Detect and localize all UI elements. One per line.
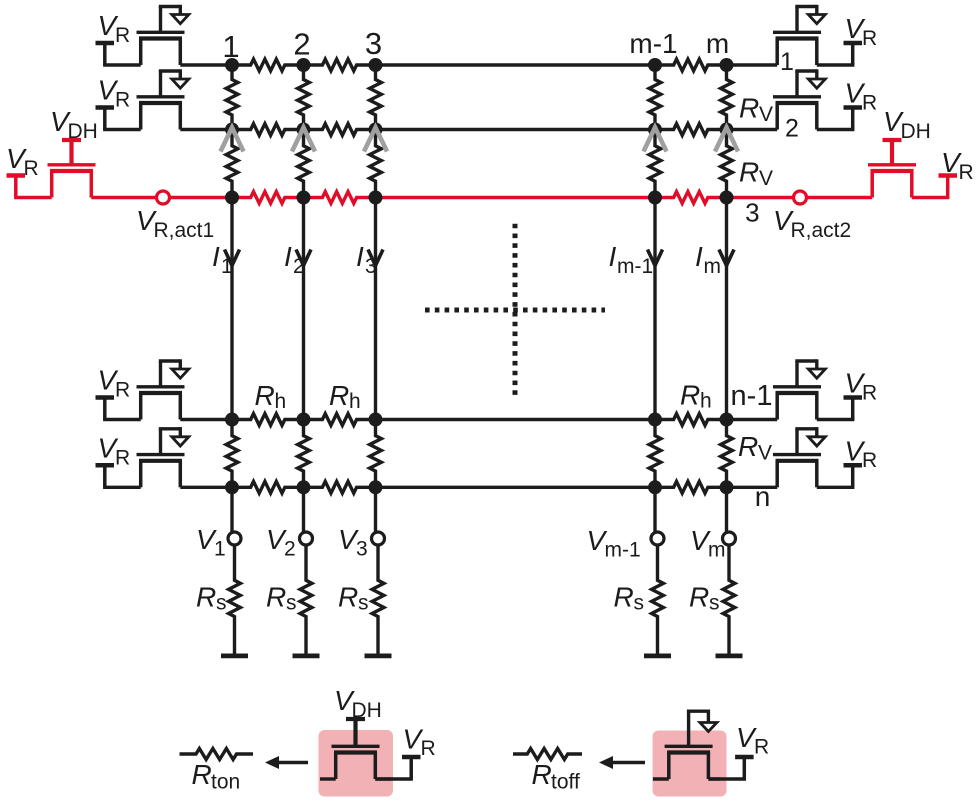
transistor row n right (off-type select) xyxy=(773,427,862,487)
svg-text:R: R xyxy=(614,582,634,613)
resistor RV col 1 rows n-1..n xyxy=(226,420,238,488)
svg-text:R: R xyxy=(115,446,130,469)
wire col m-1 to V node xyxy=(653,487,656,532)
legend arrow left xyxy=(265,756,308,769)
ground col 3 xyxy=(365,654,392,659)
wire row n-1 right segment xyxy=(727,418,778,421)
svg-text:R: R xyxy=(192,759,212,790)
resistor row n-1 between col2-col3 xyxy=(304,414,376,426)
label Rtoff xyxy=(532,759,580,794)
svg-text:h: h xyxy=(275,390,287,413)
svg-text:2: 2 xyxy=(284,538,296,561)
dotted continuation line horizontal xyxy=(425,308,605,313)
svg-text:n: n xyxy=(755,481,771,512)
label Rs #4 xyxy=(614,582,645,615)
resistor row 2 between col m-1 and m xyxy=(655,124,727,136)
ground col m-1 xyxy=(644,654,671,659)
current arrow col m xyxy=(719,250,734,266)
legend left transistor source/drain wires xyxy=(320,777,391,780)
resistor RV col m rows n-1..n xyxy=(721,420,733,488)
label VR legend right xyxy=(736,722,769,759)
resistor row n-1 between col m-1 and m xyxy=(655,414,727,426)
wire col 1 vertical xyxy=(230,198,233,420)
junction col 3 row n xyxy=(369,480,383,494)
junction col 2 row n xyxy=(297,480,311,494)
svg-text:R: R xyxy=(862,27,877,50)
wire active row 3 to col1 xyxy=(170,196,233,199)
resistor row n-1 between col1-col2 xyxy=(232,414,304,426)
resistor Rs col 1 xyxy=(229,545,241,654)
transistor row-2 left (off-type select) xyxy=(96,69,189,129)
node V terminal col 3 (open circle) xyxy=(372,532,385,545)
resistor RV col 3 rows2-3 xyxy=(370,130,382,198)
svg-text:1: 1 xyxy=(214,538,226,561)
label VDH left xyxy=(50,106,98,143)
label column 1 xyxy=(222,29,239,64)
svg-text:h: h xyxy=(349,390,361,413)
wire col m vertical xyxy=(725,198,728,420)
junction col 1 row1 xyxy=(225,58,239,72)
wire row n middle segment xyxy=(376,486,656,489)
label VR transistor row n-1 left xyxy=(98,365,131,402)
wire row n right segment xyxy=(727,486,778,489)
svg-text:R: R xyxy=(421,737,436,760)
junction col 1 row2 xyxy=(225,123,239,137)
wire row 2 middle segment xyxy=(376,128,656,131)
svg-text:m-1: m-1 xyxy=(605,539,641,562)
junction col m row1 xyxy=(720,58,734,72)
transistor active row-3 right (on, VDH gate, red) xyxy=(868,140,957,198)
legend highlight box left (Rton) xyxy=(319,730,394,797)
junction col m-1 row n-1 xyxy=(648,413,662,427)
label V2 xyxy=(266,524,296,561)
label Rton xyxy=(192,759,241,794)
label row n-1 xyxy=(731,380,773,412)
wire row 1 right segment xyxy=(727,63,778,66)
svg-text:m-1: m-1 xyxy=(617,255,653,278)
svg-text:R: R xyxy=(338,582,358,613)
label V3 xyxy=(338,524,368,561)
resistor row 1 between col1-col2 xyxy=(232,59,304,71)
junction col 2 row2 xyxy=(297,123,311,137)
resistor row 2 between col2-col3 xyxy=(304,124,376,136)
label row n xyxy=(755,481,771,512)
svg-text:1: 1 xyxy=(221,255,233,278)
legend resistor Rtoff symbol xyxy=(513,749,582,760)
svg-text:DH: DH xyxy=(352,699,382,722)
label VR,act1 xyxy=(136,205,214,242)
svg-text:2: 2 xyxy=(293,255,305,278)
label Rh #1 xyxy=(255,380,287,413)
junction col 3 row2 xyxy=(369,123,383,137)
svg-text:R: R xyxy=(959,161,974,184)
label Im-1 xyxy=(609,241,654,278)
svg-text:I: I xyxy=(284,241,292,272)
resistor RV col 2 rows1-2 xyxy=(298,65,310,130)
gray arrow col m-1 row2 xyxy=(644,128,667,152)
svg-text:s: s xyxy=(634,592,645,615)
svg-text:V: V xyxy=(758,442,772,465)
junction col 2 row n-1 xyxy=(297,413,311,427)
svg-text:DH: DH xyxy=(68,120,98,143)
junction col m-1 row2 xyxy=(648,123,662,137)
svg-text:1: 1 xyxy=(222,29,239,64)
svg-text:3: 3 xyxy=(365,26,382,61)
junction col 1 row n-1 xyxy=(225,413,239,427)
label row 2 xyxy=(785,115,799,143)
svg-text:R: R xyxy=(862,449,877,472)
transistor row-1 left (off-type select) xyxy=(96,5,189,65)
resistor RV col m rows1-2 xyxy=(721,65,733,130)
wire active row 3 middle segment xyxy=(376,196,656,199)
svg-text:n-1: n-1 xyxy=(731,380,773,412)
svg-text:R: R xyxy=(24,157,39,180)
label Rs #5 xyxy=(689,582,720,615)
transistor row-1 right (off-type select) xyxy=(773,5,862,65)
resistor row n between col2-col3 xyxy=(304,481,376,493)
label VR transistor row2 left xyxy=(98,75,131,112)
svg-text:3: 3 xyxy=(365,255,377,278)
transistor row-2 right (off-type select) xyxy=(773,69,862,129)
junction col m row n xyxy=(720,480,734,494)
resistor row 1 between col2-col3 xyxy=(304,59,376,71)
svg-text:R: R xyxy=(739,157,759,188)
resistor active row col2-col3 (red) xyxy=(304,192,376,204)
node V terminal col 2 (open circle) xyxy=(300,532,313,545)
resistor RV col 1 rows2-3 xyxy=(226,130,238,198)
transistor row n left (off-type select) xyxy=(96,427,189,487)
label I1 xyxy=(212,241,233,278)
resistor RV col m rows2-3 xyxy=(721,130,733,198)
svg-text:R: R xyxy=(862,91,877,114)
resistor RV col m-1 rows1-2 xyxy=(649,65,661,130)
resistor RV col 2 rows2-3 xyxy=(298,130,310,198)
node V terminal col 1 (open circle) xyxy=(228,532,241,545)
wire col 2 vertical xyxy=(302,198,305,420)
wire col 3 vertical xyxy=(374,198,377,420)
junction col m row2 xyxy=(720,123,734,137)
junction col 1 row n xyxy=(225,480,239,494)
label VR transistor row1 right xyxy=(845,13,878,50)
wire row n-1 middle segment xyxy=(376,418,656,421)
junction col m-1 row1 xyxy=(648,58,662,72)
label Rh #3 xyxy=(680,380,712,413)
svg-text:s: s xyxy=(286,592,297,615)
label I2 xyxy=(284,241,305,278)
svg-text:m-1: m-1 xyxy=(629,28,677,59)
resistor Rs col 2 xyxy=(300,545,312,654)
label RV #1 xyxy=(739,93,773,127)
label RV #3 xyxy=(738,431,772,465)
svg-text:R: R xyxy=(680,380,700,411)
transistor row n-1 right (off-type select) xyxy=(773,359,862,419)
svg-text:V: V xyxy=(759,103,773,126)
label Rs #1 xyxy=(196,582,227,615)
svg-text:V: V xyxy=(759,167,773,190)
wire col 3 to V node xyxy=(374,487,377,532)
label column 3 xyxy=(365,26,382,61)
node V terminal col m (open circle) xyxy=(723,532,736,545)
legend transistor on-state (VDH gate) xyxy=(332,719,421,779)
label Vm-1 xyxy=(587,525,641,562)
label row 1 xyxy=(780,48,794,76)
label Rs #3 xyxy=(338,582,369,615)
label VR legend left xyxy=(403,724,436,761)
junction col m row3 xyxy=(720,191,734,205)
node V terminal col m-1 (open circle) xyxy=(651,532,664,545)
label RV #2 xyxy=(739,157,773,191)
label VR red transistor right xyxy=(941,147,974,184)
label row 3 xyxy=(745,198,759,228)
svg-text:I: I xyxy=(356,241,364,272)
svg-text:toff: toff xyxy=(551,771,580,794)
resistor RV col m-1 rows n-1..n xyxy=(649,420,661,488)
svg-text:2: 2 xyxy=(293,27,310,62)
svg-text:R: R xyxy=(738,431,758,462)
wire col m-1 vertical xyxy=(653,198,656,420)
junction col m-1 row n xyxy=(648,480,662,494)
current arrow col m-1 xyxy=(648,250,663,266)
label VR red transistor left xyxy=(6,143,39,180)
label column m xyxy=(706,28,729,59)
svg-text:1: 1 xyxy=(780,48,794,76)
dotted continuation line vertical xyxy=(513,224,518,395)
legend transistor off-state (gate-tied) xyxy=(665,710,754,780)
svg-text:R: R xyxy=(255,380,275,411)
svg-text:I: I xyxy=(609,241,617,272)
junction col 1 row3 xyxy=(225,191,239,205)
svg-text:m: m xyxy=(704,255,722,278)
resistor Rs col 3 xyxy=(372,545,384,654)
label column m-1 xyxy=(629,28,677,59)
legend resistor Rton symbol xyxy=(180,749,254,760)
legend arrow right xyxy=(599,756,645,769)
gray arrow col 1 row2 xyxy=(221,128,244,152)
resistor Rs col m-1 xyxy=(652,545,664,654)
label I3 xyxy=(356,241,377,278)
gray arrow col 2 row2 xyxy=(292,128,315,152)
wire col 1 to V node xyxy=(230,487,233,532)
junction col 2 row3 xyxy=(297,191,311,205)
svg-text:I: I xyxy=(212,241,220,272)
svg-text:R: R xyxy=(532,759,552,790)
svg-text:R: R xyxy=(115,379,130,402)
resistor active row col1-col2 (red) xyxy=(232,192,304,204)
svg-text:R: R xyxy=(689,582,709,613)
svg-text:R: R xyxy=(754,736,769,759)
wire active row 3 to VR,act2 xyxy=(727,196,794,199)
junction col m row n-1 xyxy=(720,413,734,427)
label Vm xyxy=(690,525,726,562)
svg-text:I: I xyxy=(695,241,703,272)
svg-text:R,act2: R,act2 xyxy=(791,219,852,242)
label Rs #2 xyxy=(266,582,297,615)
svg-text:ton: ton xyxy=(211,771,240,794)
svg-text:DH: DH xyxy=(901,120,931,143)
wire active row 3, left segment xyxy=(91,196,156,199)
label Im xyxy=(695,241,721,278)
current arrow col 2 xyxy=(296,250,311,266)
ground col m xyxy=(716,654,743,659)
label VR transistor row2 right xyxy=(845,78,878,115)
svg-text:s: s xyxy=(358,592,369,615)
wire active row 3, right segment xyxy=(807,196,873,199)
svg-text:R: R xyxy=(266,582,286,613)
svg-text:m: m xyxy=(708,539,726,562)
label VR transistor row n right xyxy=(845,435,878,472)
resistor RV col 3 rows n-1..n xyxy=(370,420,382,488)
svg-text:R,act1: R,act1 xyxy=(154,219,215,242)
svg-text:R: R xyxy=(329,380,349,411)
label VR,act2 xyxy=(773,205,851,242)
wire row n-1 left segment xyxy=(180,418,232,421)
wire row n left segment xyxy=(180,486,232,489)
ground col 2 xyxy=(293,654,320,659)
svg-text:R: R xyxy=(115,89,130,112)
gray arrow col m row2 xyxy=(715,128,738,152)
resistor row n between col1-col2 xyxy=(232,481,304,493)
svg-text:3: 3 xyxy=(745,198,759,228)
wire row 1 middle segment xyxy=(376,63,656,66)
resistor row n between col m-1 and m xyxy=(655,481,727,493)
resistor RV col 1 rows1-2 xyxy=(226,65,238,130)
svg-text:s: s xyxy=(216,592,227,615)
svg-text:R: R xyxy=(196,582,216,613)
svg-text:R: R xyxy=(115,24,130,47)
junction col 3 row1 xyxy=(369,58,383,72)
transistor row n-1 left (off-type select) xyxy=(96,359,189,419)
svg-text:2: 2 xyxy=(785,115,799,143)
resistor row 1 between col m-1 and m xyxy=(655,59,727,71)
junction col 3 row3 xyxy=(369,191,383,205)
wire row 1 left segment xyxy=(180,63,232,66)
junction col 3 row n-1 xyxy=(369,413,383,427)
resistor RV col m-1 rows2-3 xyxy=(649,130,661,198)
label VR transistor row n-1 right xyxy=(845,368,878,405)
node VR,act2 terminal (open circle) xyxy=(794,191,807,204)
transistor active row-3 left (on, VDH gate, red) xyxy=(7,140,96,198)
resistor row 2 between col1-col2 xyxy=(232,124,304,136)
svg-text:h: h xyxy=(700,390,712,413)
legend highlight box right (Rtoff) xyxy=(653,731,727,797)
label Rh #2 xyxy=(329,380,361,413)
current arrow col 1 xyxy=(225,250,240,266)
label VR transistor row1 left xyxy=(98,10,131,47)
wire col m to V node xyxy=(725,487,728,532)
label VDH legend xyxy=(334,685,382,722)
ground col 1 xyxy=(221,654,248,659)
label VR transistor row n left xyxy=(98,433,131,470)
wire row 2 right segment xyxy=(727,128,778,131)
svg-text:R: R xyxy=(862,381,877,404)
current arrow col 3 xyxy=(368,250,383,266)
node VR,act1 terminal (open circle) xyxy=(157,191,170,204)
junction col m-1 row3 xyxy=(648,191,662,205)
svg-text:s: s xyxy=(709,592,720,615)
gray arrow col 3 row2 xyxy=(364,128,387,152)
resistor Rs col m xyxy=(723,545,735,654)
resistor RV col 2 rows n-1..n xyxy=(298,420,310,488)
resistor active row col m-1 - m (red) xyxy=(655,192,727,204)
svg-text:m: m xyxy=(706,28,729,59)
resistor RV col 3 rows1-2 xyxy=(370,65,382,130)
svg-text:R: R xyxy=(739,93,759,124)
label column 2 xyxy=(293,27,310,62)
label VDH right xyxy=(883,106,931,143)
label V1 xyxy=(196,524,226,561)
svg-text:3: 3 xyxy=(356,538,368,561)
wire col 2 to V node xyxy=(302,487,305,532)
wire row 2 left segment xyxy=(180,128,232,131)
junction col 2 row1 xyxy=(297,58,311,72)
legend right transistor source/drain wires xyxy=(653,777,720,780)
